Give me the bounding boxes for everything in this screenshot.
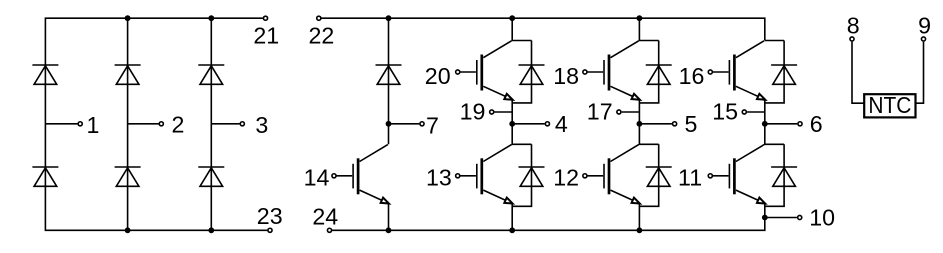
wire: leg2 emitter vertical <box>638 203 640 230</box>
terminal 9 <box>921 37 925 41</box>
svg-text:24: 24 <box>312 204 338 230</box>
wire: rectifier leg 2 vertical <box>127 18 129 230</box>
diode D12 top leg3 <box>771 65 797 84</box>
svg-text:20: 20 <box>425 63 451 89</box>
terminal 17 <box>617 110 621 114</box>
wire: chopper collector vertical <box>388 124 390 145</box>
wire: rectifier top rail + left leg + bottom rail <box>45 18 267 230</box>
wire: leg2 collector drop <box>639 18 658 40</box>
wire: leg3 mid vertical <box>765 99 784 144</box>
wire: leg2 mid vertical <box>639 99 658 144</box>
svg-text:22: 22 <box>309 23 335 49</box>
wire: chopper leg upper vertical <box>388 18 390 124</box>
transistor Q20 top IGBT leg1 <box>456 41 514 103</box>
svg-text:19: 19 <box>460 99 486 125</box>
node dot rectifier top leg3 <box>208 15 214 21</box>
wire: leg2 top diode branch <box>639 41 658 103</box>
node 7 dot <box>386 121 392 127</box>
diode D1 upper leg1 <box>32 65 58 84</box>
terminal 21 <box>263 16 267 20</box>
svg-text:16: 16 <box>679 63 705 89</box>
svg-text:NTC: NTC <box>868 92 911 118</box>
diode D9 bottom leg1 <box>519 167 545 186</box>
wire: leg1 collector drop <box>512 18 531 40</box>
terminal 24 <box>327 228 331 232</box>
wire: leg3 emitter vertical to node 10 <box>764 203 766 218</box>
wire: tap to terminal 10 <box>765 217 797 219</box>
node dot rectifier bottom leg3 <box>208 227 214 233</box>
wire: leg3 bottom diode branch <box>765 144 784 206</box>
transistor Q12 bottom IGBT leg2 <box>583 145 641 207</box>
node dot leg2 bottom <box>637 227 643 233</box>
terminal 3 <box>240 122 244 126</box>
transistor Q14 chopper IGBT <box>332 145 390 207</box>
terminal 22 <box>317 16 321 20</box>
terminal 15 <box>742 110 746 114</box>
wire: node 7 tap <box>389 123 420 125</box>
node dot leg2 top <box>637 15 643 21</box>
svg-text:13: 13 <box>426 165 452 191</box>
terminal 23 <box>268 228 272 232</box>
wire: tap to terminal 1 <box>45 123 77 125</box>
diode D13 bottom leg3 <box>771 167 797 186</box>
terminal 2 <box>159 122 163 126</box>
wire: NTC left lead <box>852 42 864 103</box>
svg-text:18: 18 <box>553 63 579 89</box>
node dot chopper bottom rail <box>386 227 392 233</box>
diode D5 lower leg2 <box>115 167 141 186</box>
diode D3 upper leg3 <box>198 65 224 84</box>
wire: phase tap 4 <box>512 123 545 125</box>
node dot leg1 phase <box>509 121 515 127</box>
wire: chopper emitter vertical <box>388 203 390 230</box>
svg-text:3: 3 <box>255 112 268 138</box>
node dot leg1 bottom <box>509 227 515 233</box>
node dot rectifier top leg2 <box>125 15 131 21</box>
svg-text:11: 11 <box>678 165 702 191</box>
svg-text:6: 6 <box>810 111 823 137</box>
wire: leg3 top diode branch horizontal <box>765 40 784 42</box>
transistor Q11 bottom IGBT leg3 <box>708 145 766 207</box>
svg-text:23: 23 <box>257 203 283 229</box>
thermistor NTC box <box>864 94 915 117</box>
wire: leg1 bottom diode branch <box>512 144 531 206</box>
wire: sense 19 <box>495 111 513 113</box>
transistor Q13 bottom IGBT leg1 <box>456 145 514 207</box>
wire: NTC right lead <box>916 42 924 103</box>
wire: phase tap 5 <box>639 123 672 125</box>
diode D10 top leg2 <box>646 65 672 84</box>
wire: phase tap 6 <box>765 123 798 125</box>
wire: inverter bottom rail (24 to leg3 rise) <box>332 218 765 231</box>
svg-text:9: 9 <box>918 13 931 39</box>
terminal 5 <box>673 122 677 126</box>
terminal 6 <box>798 122 802 126</box>
transistor Q16 top IGBT leg3 <box>708 41 766 103</box>
terminal 10 <box>798 215 802 219</box>
wire: leg1 emitter vertical <box>511 203 513 230</box>
node dot rectifier bottom leg2 <box>125 227 131 233</box>
wire: rectifier leg 3 vertical <box>210 18 212 230</box>
svg-text:1: 1 <box>87 112 100 138</box>
diode D2 upper leg2 <box>115 65 141 84</box>
terminal 4 <box>545 122 549 126</box>
node dot chopper top rail <box>386 15 392 21</box>
svg-text:5: 5 <box>684 111 697 137</box>
diode D7 chopper <box>376 65 402 84</box>
wire: leg1 mid vertical <box>512 99 531 144</box>
svg-text:7: 7 <box>426 112 439 138</box>
node dot leg2 phase <box>637 121 643 127</box>
wire: leg3 top diode branch vertical <box>765 41 784 103</box>
wire: inverter top rail (22 to leg3 corner) <box>321 18 764 40</box>
svg-text:12: 12 <box>553 165 579 191</box>
svg-text:8: 8 <box>847 13 860 39</box>
terminal 7 <box>420 122 424 126</box>
svg-text:14: 14 <box>304 164 330 190</box>
node dot leg3 emitter/terminal10 <box>762 215 768 221</box>
svg-text:21: 21 <box>253 23 279 49</box>
wire: tap to terminal 2 <box>128 123 159 125</box>
svg-text:15: 15 <box>712 99 738 125</box>
diode D11 bottom leg2 <box>646 167 672 186</box>
diode D6 lower leg3 <box>198 167 224 186</box>
terminal 8 <box>850 37 854 41</box>
diode D8 top leg1 <box>519 65 545 84</box>
node dot leg1 top <box>509 15 515 21</box>
node dot leg3 phase <box>762 121 768 127</box>
terminal 19 <box>490 110 494 114</box>
wire: sense 15 <box>747 111 765 113</box>
svg-text:10: 10 <box>809 205 835 231</box>
wire: sense 17 <box>622 111 640 113</box>
svg-text:4: 4 <box>555 111 568 137</box>
diode D4 lower leg1 <box>32 167 58 186</box>
wire: leg2 bottom diode branch <box>639 144 658 206</box>
transistor Q18 top IGBT leg2 <box>583 41 641 103</box>
svg-text:2: 2 <box>172 112 185 138</box>
terminal 1 <box>78 122 82 126</box>
wire: leg1 top diode branch vertical <box>512 41 531 103</box>
svg-text:17: 17 <box>587 99 613 125</box>
wire: tap to terminal 3 <box>211 123 239 125</box>
